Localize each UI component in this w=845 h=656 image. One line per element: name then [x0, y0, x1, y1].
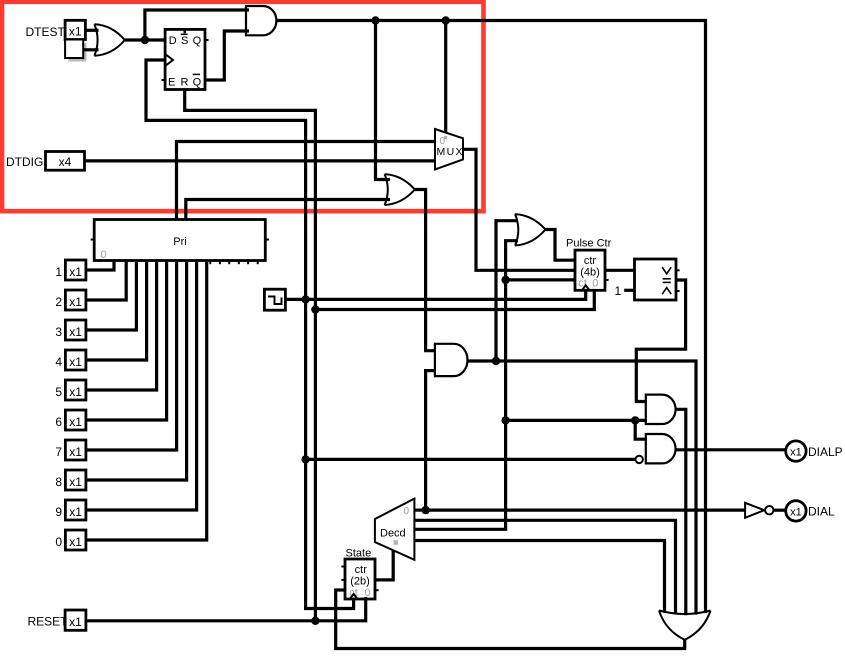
wire Decd1 node up to AND U6 input 2 — [426, 371, 436, 511]
svg-text:x1: x1 — [69, 355, 82, 369]
input connector DTDIG x4 box — [46, 152, 85, 171]
wire State output to Decd select — [375, 551, 393, 580]
svg-text:DIAL: DIAL — [808, 505, 835, 519]
svg-text:x1: x1 — [69, 475, 82, 489]
input connector 6 x1 box — [65, 410, 86, 430]
input connector RESET x1 box — [65, 610, 86, 630]
svg-text:E: E — [168, 77, 175, 89]
State right pin stub — [375, 589, 379, 591]
wire connector 8 to Pri pin 8 — [86, 262, 187, 480]
svg-text:x1: x1 — [790, 506, 802, 518]
svg-text:R: R — [181, 77, 189, 89]
input connector DTEST x1 box — [65, 20, 85, 39]
wire RESET to reset net and State reset pin — [86, 597, 366, 621]
svg-text:x1: x1 — [69, 615, 82, 629]
svg-text:5: 5 — [55, 385, 62, 399]
State clock triangle — [350, 594, 357, 599]
wire MUX select from node down into MUX top — [444, 21, 447, 135]
wire connector 2 to Pri pin 2 — [86, 262, 126, 300]
input connector 7 x1 box — [65, 440, 86, 460]
wire gate B output to DIALP connector — [676, 448, 786, 451]
wire clock net branch to NAND B inverted input — [306, 458, 636, 461]
svg-text:DTDIG: DTDIG — [6, 155, 43, 169]
U2 pin stub E — [162, 79, 166, 81]
svg-text:S: S — [181, 35, 188, 47]
svg-text:(2b): (2b) — [350, 575, 370, 587]
wire shadow box to OR input 2 — [83, 48, 98, 51]
U2 clock triangle — [165, 54, 173, 66]
Pri right pin stub — [265, 239, 269, 241]
or-gate U1 (DTEST input OR) — [94, 24, 124, 56]
svg-text:Pulse Ctr: Pulse Ctr — [566, 238, 612, 250]
svg-text:D: D — [169, 35, 177, 47]
and-gate U6 (middle) — [435, 344, 468, 376]
Pri left pin stub — [91, 239, 95, 241]
svg-text:DTEST: DTEST — [26, 25, 66, 39]
wire AND U6 output up to OR U7 input 1 — [496, 221, 518, 361]
wire connector 7 to Pri pin 7 — [86, 262, 177, 450]
wire DTEST box to OR input 1 — [85, 29, 98, 32]
node junction reset net — [311, 305, 319, 313]
wire comparator output down and around to AND T input 1 — [636, 280, 685, 402]
wire connector 3 to Pri pin 3 — [86, 262, 136, 330]
svg-text:x1: x1 — [69, 415, 82, 429]
comparator U8 box — [635, 259, 677, 300]
svg-text:9: 9 — [55, 505, 62, 519]
svg-text:7: 7 — [55, 445, 62, 459]
svg-text:1: 1 — [55, 265, 62, 279]
svg-text:DIALP: DIALP — [808, 445, 843, 459]
wire Decd output 2 down to OR U9 input 2 — [414, 520, 675, 614]
output connector DIALP circle — [786, 441, 806, 461]
and-gate U3 (top) — [246, 6, 276, 35]
wire connector 4 to Pri pin 4 — [86, 262, 147, 360]
flip-flop U2 box — [165, 29, 205, 89]
U2 pin stub S top — [183, 30, 185, 33]
svg-text:Pri: Pri — [173, 236, 186, 248]
or-gate U7 (above Pulse Ctr) — [515, 214, 545, 245]
node junction Decd1 — [421, 506, 429, 514]
svg-text:ctr: ctr — [584, 255, 597, 267]
svg-text:ctr: ctr — [355, 564, 368, 576]
svg-text:Q: Q — [193, 35, 202, 47]
node junction on U3 output for MUX select branch — [442, 16, 450, 24]
svg-text:x1: x1 — [69, 265, 82, 279]
and-gate T — [646, 395, 676, 424]
or-gate U9 (5-input, pointing down) — [659, 611, 711, 640]
wire Decd3 node down to AND T input 2 — [506, 419, 647, 422]
wire U4 output down to AND U6 input 1 — [415, 190, 436, 351]
svg-text:x4: x4 — [59, 155, 72, 169]
input connector 3 x1 box — [65, 320, 86, 340]
State left pin stubs — [341, 567, 345, 580]
Pri unconnected bottom pin ticks — [210, 261, 257, 265]
input connector 5 x1 box — [65, 380, 86, 400]
wire Decd output 3 vertical net — [414, 241, 518, 530]
wire NOT output to DIAL connector — [774, 509, 786, 512]
wire Pulse Ctr output to comparator input A — [605, 269, 635, 272]
wire U3 output across top to right edge and down to OR U9 input 5 — [276, 21, 705, 614]
or-gate U4 (below MUX) — [385, 174, 415, 205]
U2 pin stub Q — [205, 39, 209, 41]
svg-text:MUX: MUX — [437, 146, 463, 158]
svg-text:1: 1 — [615, 284, 622, 298]
wire connector 0 to Pri pin 10 — [86, 262, 207, 540]
svg-text:0: 0 — [404, 506, 410, 517]
wire connector 9 to Pri pin 9 — [86, 262, 197, 510]
svg-text:x1: x1 — [69, 325, 82, 339]
wire MUX output down and across to Pulse Ctr input 2 — [463, 149, 575, 270]
svg-text:0: 0 — [101, 249, 107, 261]
svg-text:x1: x1 — [69, 535, 82, 549]
svg-text:Q: Q — [193, 77, 202, 89]
node junction on U3 output for OR U4 branch — [371, 16, 379, 24]
output connector DIAL circle — [786, 501, 806, 521]
input connector 2 x1 box — [65, 290, 86, 310]
counter Pulse Ctr box — [575, 250, 605, 290]
Pulse Ctr clock triangle — [582, 285, 589, 290]
wire branch down to NAND B input 1 — [635, 420, 647, 439]
node junction clock net — [301, 295, 309, 303]
wire U2 Qbar to AND U3 input 2 — [205, 31, 249, 80]
node junction at D input — [141, 36, 149, 44]
red highlight rectangle — [2, 2, 484, 211]
wire reset net branch to Pulse Ctr reset pin — [315, 291, 594, 310]
svg-text:8: 8 — [55, 475, 62, 489]
input connector 9 x1 box — [65, 500, 86, 520]
wire Decd output 1 to node — [414, 509, 425, 512]
comparator right pin stubs — [676, 270, 680, 291]
not-gate (DIAL inverter) — [745, 503, 773, 518]
wire OR U9 output around to State ct input — [336, 590, 685, 649]
node junction Decd3 net to Pulse Ctr ct pin — [501, 276, 509, 284]
wire clock box output to Pulse Ctr clock pin — [285, 291, 585, 299]
Pulse Ctr right pin stub — [605, 279, 609, 281]
wire connector 5 to Pri pin 5 — [86, 262, 157, 390]
DTEST duplicate box with shadow — [65, 40, 86, 62]
nand-gate B with inverted input — [636, 434, 676, 463]
priority encoder Pri box — [94, 220, 265, 261]
wire Pri output 1 up and across to MUX input 1 — [177, 142, 437, 220]
wire U7 output down to Pulse Ctr input 1 — [546, 230, 576, 261]
svg-text:ct: ct — [578, 278, 587, 290]
input connector 4 x1 box — [65, 350, 86, 370]
node junction branch to NAND B input 1 — [631, 416, 639, 424]
svg-text:2: 2 — [55, 295, 62, 309]
svg-text:3: 3 — [55, 325, 62, 339]
counter State box — [345, 559, 375, 599]
svg-text:0: 0 — [592, 278, 598, 290]
decoder Decd trapezoid — [375, 499, 415, 560]
node junction on Decd3 net at y420 — [501, 416, 509, 424]
wire U3-output node down to OR U4 input 1 — [376, 21, 391, 180]
svg-text:x1: x1 — [69, 385, 82, 399]
input connector 1 x1 box — [65, 260, 86, 280]
wire U1 output to DFF D input — [125, 38, 165, 41]
wire gate T output down to OR U9 input 3 — [676, 409, 686, 615]
svg-text:x1: x1 — [790, 447, 802, 459]
svg-text:6: 6 — [55, 415, 62, 429]
svg-text:RESET: RESET — [28, 615, 69, 629]
svg-text:x1: x1 — [69, 25, 82, 39]
wire DTDIG to MUX input 2 — [85, 159, 437, 162]
clock generator box — [264, 289, 285, 310]
wire connector 6 to Pri pin 6 — [86, 262, 167, 420]
node junction clock net at y459 — [301, 455, 309, 463]
wire U6 output across to right vertical into OR U9 input 4 — [468, 361, 696, 615]
wire constant 1 stub to comparator input B — [624, 289, 634, 292]
wire D node up to AND U3 input 1 — [145, 10, 249, 40]
wire Decd3 node to Pulse Ctr ct input — [506, 278, 575, 281]
wire clock net: U2 clock pin down and across to long vertical — [146, 60, 354, 609]
wire Decd output 4 down to OR U9 input 1 — [414, 541, 664, 613]
node junction reset net at RESET wire — [311, 617, 319, 625]
node junction U6 output to U7 branch — [492, 357, 500, 365]
svg-text:4: 4 — [55, 355, 62, 369]
wire Decd1 node to NOT gate input (DIAL) — [426, 509, 746, 512]
svg-text:Decd: Decd — [380, 528, 406, 540]
wire reset net: U2 R pin down and across to long vertical — [185, 90, 316, 621]
wire connector 1 to Pri pin 1 — [86, 262, 114, 270]
svg-text:x1: x1 — [69, 295, 82, 309]
input connector 0 x1 box — [65, 530, 86, 550]
svg-text:0: 0 — [55, 535, 62, 549]
wire Pri output 2 up and across to OR U4 input 2 — [186, 200, 390, 220]
svg-text:x1: x1 — [69, 445, 82, 459]
mux U5 trapezoid — [435, 129, 463, 169]
input connector 8 x1 box — [65, 470, 86, 490]
svg-text:x1: x1 — [69, 505, 82, 519]
